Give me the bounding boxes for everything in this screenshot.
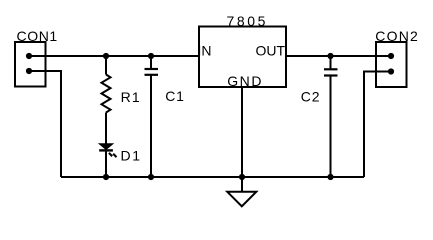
wire C1 bottom xyxy=(150,75,152,177)
svg-text:IN: IN xyxy=(198,42,212,58)
connector CON2 xyxy=(376,42,407,87)
svg-text:CON2: CON2 xyxy=(375,28,419,44)
junction C1 top xyxy=(148,53,154,59)
wire top rail IN xyxy=(29,55,199,57)
svg-text:C1: C1 xyxy=(165,88,185,104)
junction C1 bottom xyxy=(148,174,154,180)
wire GND pin to rail xyxy=(241,87,243,177)
wire R1 to D1 xyxy=(105,113,107,145)
junction C2 top xyxy=(327,53,333,59)
wire ground stub xyxy=(241,177,243,192)
diode D1 cathode bar xyxy=(99,149,113,151)
svg-text:GND: GND xyxy=(227,73,263,89)
svg-text:C2: C2 xyxy=(301,89,321,105)
svg-text:OUT: OUT xyxy=(256,43,286,59)
resistor R1 zigzag xyxy=(102,75,111,113)
wire CON1 pin2 to bottom rail xyxy=(29,71,61,177)
svg-text:D1: D1 xyxy=(121,147,142,163)
diode D1 LED triangle xyxy=(99,144,113,150)
svg-text:R1: R1 xyxy=(121,89,141,105)
CON2 pin 1 dot xyxy=(388,53,394,59)
wire OUT rail xyxy=(286,55,391,57)
wire CON2 pin2 to bottom rail xyxy=(364,72,391,178)
CON1 pin 1 dot xyxy=(26,53,32,59)
CON2 pin 2 dot xyxy=(388,68,394,74)
junction R1 top xyxy=(103,53,109,59)
diode D1 LED arrow 1 xyxy=(109,153,112,156)
wire D1 to bottom rail xyxy=(105,151,107,177)
wire C2 top xyxy=(330,56,332,69)
diode D1 LED arrow 2 xyxy=(113,154,116,157)
junction D1 bottom xyxy=(103,174,109,180)
svg-text:7805: 7805 xyxy=(227,13,269,29)
junction GND rail xyxy=(239,174,245,180)
wire C2 bottom xyxy=(330,76,332,178)
regulator U1 7805 body xyxy=(199,27,286,88)
wire R1 top xyxy=(105,56,107,75)
junction C2 bottom xyxy=(327,174,333,180)
capacitor C2 plates xyxy=(324,68,338,70)
svg-text:CON1: CON1 xyxy=(17,28,58,44)
wire bottom rail xyxy=(61,176,364,178)
connector CON1 xyxy=(15,42,46,87)
capacitor C1 plates xyxy=(145,68,159,70)
ground symbol xyxy=(227,192,256,207)
wire C1 top xyxy=(150,56,152,69)
CON1 pin 2 dot xyxy=(26,68,32,74)
